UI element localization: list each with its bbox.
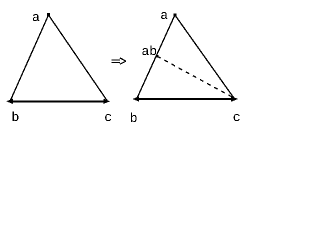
label b (left) [13,112,19,122]
dashed segment ab to c [157,56,233,97]
implication arrow => equals bars [111,59,120,61]
implication arrow => chevron [120,58,126,61]
arrowhead at b (right triangle, points left) [133,96,140,101]
left triangle edge a-c [49,15,108,101]
arrowhead at c (left triangle, points right) [103,99,110,104]
arrowhead at b (left triangle, points left) [6,99,13,104]
left triangle edge a-b [10,15,48,101]
arrowhead at c (right triangle, points right) [231,96,238,101]
left triangle bottom edge b-c [10,100,106,102]
vertex dot a (left triangle) [47,13,50,16]
vertex dot a (right triangle) [174,14,177,17]
label c (right) [234,114,240,121]
label c (left) [105,114,111,121]
vertex dot ab [156,55,159,58]
label b (right) [131,113,137,123]
label a (right) [161,12,168,19]
right triangle bottom edge b-c [137,98,233,100]
label ab [142,46,156,56]
right triangle edge a-c [175,15,234,98]
right triangle edge a-b [137,15,175,98]
label a (left) [33,14,40,21]
